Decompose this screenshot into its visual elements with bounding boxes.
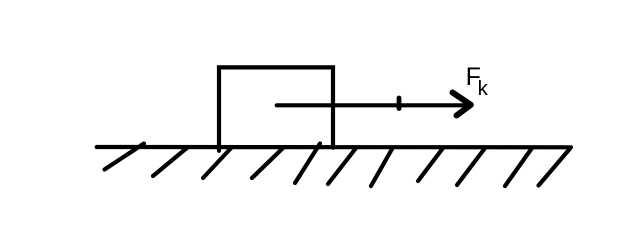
hatch 4: [252, 148, 283, 178]
hatch 10: [505, 148, 532, 186]
hatch 8: [418, 148, 443, 181]
ground line: [97, 145, 571, 150]
force arrow head: [453, 93, 471, 116]
hatch 1: [105, 144, 145, 170]
hatch 5: [295, 144, 320, 184]
svg-text:k: k: [478, 77, 489, 100]
hatch 11: [539, 149, 571, 186]
arrow tick mark: [397, 98, 402, 109]
force arrow line: [277, 103, 464, 107]
block: [219, 67, 333, 150]
hatch 7: [371, 149, 392, 186]
hatch 2: [153, 147, 188, 176]
hatch 6: [328, 148, 356, 184]
hatch 9: [457, 148, 485, 185]
hatch 3: [203, 147, 232, 178]
